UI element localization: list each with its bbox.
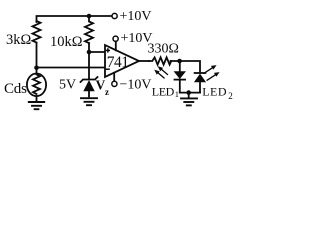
label value 5V zener xyxy=(59,78,76,93)
svg-text:1: 1 xyxy=(175,89,179,99)
terminal +10V top rail xyxy=(112,13,117,18)
svg-text:−10V: −10V xyxy=(120,78,152,93)
label value 10kΩ xyxy=(50,34,83,50)
arrows LED2 emission xyxy=(204,65,219,80)
diode D1 zener 5V xyxy=(81,77,98,97)
svg-text:V: V xyxy=(96,78,106,93)
op-amp U1 741 xyxy=(105,45,139,77)
label name Vz xyxy=(96,78,110,98)
svg-text:2: 2 xyxy=(228,91,233,101)
wire 10k bottom to zener xyxy=(88,43,90,79)
node top junction of 10k xyxy=(87,14,92,19)
svg-text:3kΩ: 3kΩ xyxy=(6,32,32,48)
svg-text:Cds: Cds xyxy=(4,81,27,97)
wire 3k bottom to Cds xyxy=(36,43,38,74)
pin - inverting xyxy=(106,68,110,70)
pin V- of op-amp xyxy=(113,73,115,82)
label name LED2 xyxy=(202,84,233,101)
label value 3kΩ xyxy=(6,32,32,48)
svg-text:LED: LED xyxy=(202,84,227,98)
pin V+ of op-amp xyxy=(115,41,117,50)
wire top rail from 3k corner to +10V terminal xyxy=(37,16,113,22)
ground LEDs xyxy=(181,98,197,105)
svg-text:5V: 5V xyxy=(59,78,76,93)
svg-text:10kΩ: 10kΩ xyxy=(50,34,83,50)
label net -10V supply xyxy=(120,78,152,93)
svg-text:+10V: +10V xyxy=(120,9,152,24)
LED D2 LED1 xyxy=(174,61,186,93)
label net +10V supply xyxy=(121,31,153,46)
ground Cds xyxy=(29,102,44,109)
terminal +10V op-amp supply xyxy=(113,36,118,41)
label value 330Ω xyxy=(148,42,179,57)
node B reference junction xyxy=(87,50,92,55)
wire noninverting input from node B xyxy=(89,51,105,53)
label part 741 xyxy=(107,54,129,71)
terminal -10V op-amp supply xyxy=(112,81,117,86)
svg-text:330Ω: 330Ω xyxy=(148,42,179,57)
label name Cds xyxy=(4,81,27,97)
wire op-amp output to LED corner xyxy=(139,61,200,73)
node C output junction xyxy=(177,59,182,64)
resistor R2 10kΩ xyxy=(85,16,93,43)
label net +10V top rail xyxy=(120,9,152,24)
node A divider junction xyxy=(34,66,39,71)
svg-text:z: z xyxy=(105,87,109,97)
pin + noninverting xyxy=(106,48,110,52)
resistor R3 330Ω xyxy=(149,57,171,64)
node D ground junction xyxy=(186,90,191,95)
wire ground stem xyxy=(188,93,190,98)
ground zener xyxy=(81,98,97,105)
arrows LED1 emission xyxy=(154,66,167,78)
resistor R1 3kΩ xyxy=(33,21,41,43)
label name LED1 xyxy=(152,85,179,100)
svg-text:741: 741 xyxy=(107,54,129,71)
LED D3 LED2 xyxy=(194,73,206,93)
wire LED cathodes to ground xyxy=(180,92,200,94)
svg-text:LED: LED xyxy=(152,85,175,99)
photoresistor Cds xyxy=(27,74,46,101)
wire inverting input from node A xyxy=(37,67,106,69)
